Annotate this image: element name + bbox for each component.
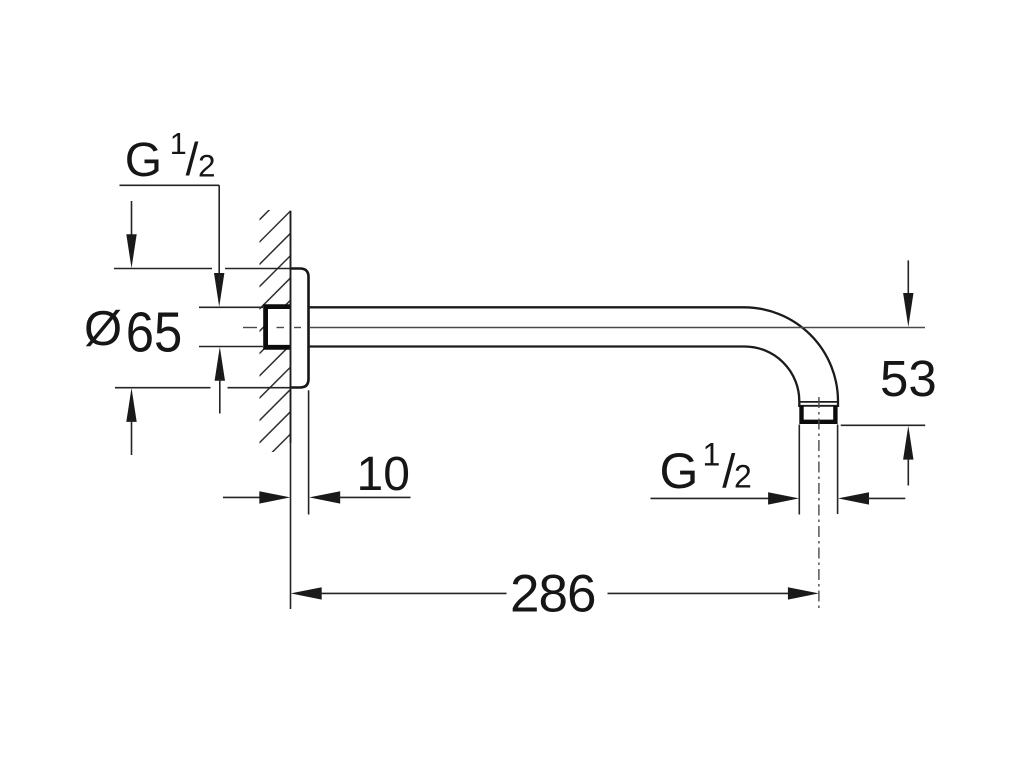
svg-text:10: 10 <box>357 448 410 501</box>
svg-text:2: 2 <box>734 459 752 495</box>
svg-text:286: 286 <box>510 565 595 624</box>
svg-text:/: / <box>186 133 199 185</box>
svg-text:65: 65 <box>126 300 183 364</box>
svg-text:G: G <box>660 443 699 499</box>
svg-text:1: 1 <box>170 127 187 161</box>
svg-text:Ø: Ø <box>84 302 122 356</box>
svg-text:53: 53 <box>880 350 937 407</box>
svg-text:G: G <box>125 134 162 187</box>
svg-text:2: 2 <box>198 148 216 184</box>
svg-text:1: 1 <box>703 436 721 472</box>
